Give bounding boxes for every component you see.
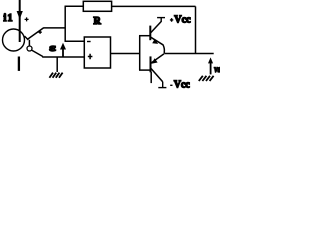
Q2 collector stub to -Vcc terminal <box>162 82 164 88</box>
node dot (plus mark) near arrow <box>25 17 29 21</box>
wire: output line vs <box>164 53 213 55</box>
svg-text:vs: vs <box>214 64 220 74</box>
current arrow on input wire <box>17 11 23 19</box>
switch K: pivot contact circle <box>27 46 32 51</box>
wire: bottom base lead <box>139 69 151 71</box>
transistor Q2 (PNP) emitter diagonal <box>151 54 164 63</box>
svg-text:ε: ε <box>49 42 56 54</box>
switch K: common stub down to pivot <box>28 40 30 46</box>
op-amp U1 (rectangle) <box>84 37 110 68</box>
Q2 collector diagonal <box>151 68 163 82</box>
wire: base drive vertical <box>139 36 141 70</box>
minus sign of -Vcc label <box>170 84 172 86</box>
svg-text:Vcc: Vcc <box>174 13 190 25</box>
+Vcc terminal bar <box>157 17 165 19</box>
Q1 collector diagonal <box>151 21 162 32</box>
wire: stub below Q2 bar <box>150 72 152 83</box>
minus sign of op-amp <box>87 41 91 43</box>
svg-text:R: R <box>94 16 102 27</box>
wire: stub below current source <box>18 57 20 71</box>
Q2 base bar <box>150 56 152 72</box>
svg-text:i1: i1 <box>4 13 14 24</box>
Q2 emitter arrowhead (PNP points toward base) <box>151 58 157 64</box>
svg-text:Vcc: Vcc <box>174 78 190 90</box>
wire: upper throw horizontal to inverting node <box>43 27 65 29</box>
switch K: lower throw diagonal <box>31 50 43 57</box>
transistor Q1 (NPN) base bar <box>149 26 151 41</box>
ground (hatched) under vs arrow <box>199 76 214 81</box>
wire: input vertical from top edge into current source <box>19 0 21 42</box>
ground (hatched) under + line <box>49 73 62 78</box>
wire: inverting input line <box>65 40 85 42</box>
wire: R right lead / top feedback rail <box>112 5 196 7</box>
switch K: blade to upper throw <box>27 28 43 40</box>
resistor R (box) <box>83 1 111 11</box>
switch K: link from source arc to common point <box>25 36 29 40</box>
wire: non-inverting input line <box>42 56 84 58</box>
Q1 emitter diagonal with junction bend to output <box>151 37 165 53</box>
vs arrow (points up at output) <box>210 63 212 74</box>
wire: feedback vertical at inverting node <box>64 6 66 41</box>
node mark (plus) at upper throw <box>38 31 41 34</box>
Q1 emitter arrowhead (NPN points away from base) <box>152 39 158 44</box>
wire: ground drop from + line <box>56 57 58 72</box>
Q1 collector stub to +Vcc terminal <box>160 18 162 22</box>
current source I1 (circle) <box>3 29 25 51</box>
wire: top base lead <box>139 35 151 37</box>
plus sign of +Vcc label <box>170 18 173 22</box>
epsilon arrow (points up) <box>62 49 64 57</box>
-Vcc terminal bar <box>158 87 166 89</box>
wire: op-amp output <box>110 53 139 55</box>
wire: feedback right vertical down to output <box>195 6 197 53</box>
plus sign of op-amp <box>88 54 93 60</box>
wire: R left lead <box>65 5 84 7</box>
